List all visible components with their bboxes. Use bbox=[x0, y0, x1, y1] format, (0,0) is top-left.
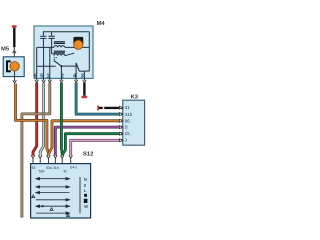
connector arrows above S12 bbox=[31, 155, 72, 158]
pin 4 riser bbox=[75, 63, 77, 79]
svg-text:53: 53 bbox=[32, 166, 36, 170]
connector arrow below M5 bbox=[13, 80, 17, 83]
svg-text:31b: 31b bbox=[125, 112, 133, 117]
connector arrows below M4 bbox=[35, 80, 86, 83]
pin 6 riser bbox=[36, 47, 38, 78]
svg-text:53a: 53a bbox=[46, 166, 52, 170]
switch junction node bbox=[60, 65, 62, 67]
wire green M4 pin2 to S12 bbox=[60, 83, 64, 156]
motor M4 brushes bbox=[73, 37, 83, 46]
svg-text:5: 5 bbox=[40, 73, 43, 79]
wire black stub to K3 31 bbox=[99, 107, 123, 109]
M4 internal wiring bbox=[37, 32, 90, 79]
wire teal M4 pin4 to K3 31b bbox=[76, 83, 123, 115]
svg-text:M4: M4 bbox=[97, 21, 106, 27]
M5 feed cable (thick black) bbox=[13, 28, 15, 48]
svg-text:15: 15 bbox=[125, 131, 131, 136]
wire lever to pin3 bbox=[79, 70, 84, 72]
terminal (red) at stub bbox=[97, 105, 99, 110]
svg-text:S: S bbox=[125, 125, 128, 130]
pin 3 riser bbox=[83, 71, 85, 78]
svg-text:53b: 53b bbox=[39, 170, 45, 174]
wire pink K3 J to S12 bbox=[71, 140, 123, 155]
S12 pin labels bbox=[32, 165, 78, 173]
wire green K3 15 to junction bbox=[62, 134, 122, 155]
svg-text:86: 86 bbox=[125, 118, 131, 123]
choke L1 bbox=[54, 46, 76, 48]
capacitor C2 bbox=[48, 32, 54, 54]
wire choke feed bbox=[37, 47, 54, 53]
svg-text:31: 31 bbox=[125, 105, 131, 110]
component box M5 (washer pump) bbox=[3, 57, 24, 77]
wire M5 top lead bbox=[13, 47, 15, 57]
pin 2 riser bbox=[60, 66, 62, 78]
M4 pin numbers bbox=[34, 73, 84, 79]
relay box K3 bbox=[123, 100, 145, 145]
switch rail bbox=[61, 65, 76, 67]
svg-text:J: J bbox=[125, 138, 127, 143]
capacitor C1 bbox=[40, 32, 46, 48]
pin 1 riser bbox=[49, 47, 51, 78]
choke L2 bbox=[54, 53, 74, 56]
S12 switch rows bbox=[36, 178, 70, 215]
connector arrows at K3 bbox=[119, 106, 122, 142]
svg-text:64-2: 64-2 bbox=[70, 165, 77, 169]
component box M4 (wiper motor) bbox=[34, 26, 93, 78]
wire black M4 pin3 to earth bbox=[83, 83, 85, 96]
washer pump M5 feed terminal (red) bbox=[12, 25, 17, 27]
wire purple K3 S to S12 31b bbox=[55, 127, 123, 156]
wire orange M5 to S12 pin 53a bbox=[16, 84, 49, 156]
M5 pump rotor bbox=[10, 62, 19, 71]
pin 5 riser bbox=[43, 47, 45, 78]
switch contact left bbox=[37, 65, 56, 67]
M5 pump bracket bbox=[7, 61, 11, 71]
motor M4 armature bbox=[74, 40, 83, 49]
svg-text:S12: S12 bbox=[83, 152, 93, 158]
wire red M4 pin6 to S12 53 bbox=[33, 83, 37, 156]
frame right edge bbox=[84, 32, 89, 71]
S12 position letters bbox=[84, 177, 89, 209]
svg-text:31b: 31b bbox=[53, 166, 59, 170]
S12 detent bar bbox=[79, 177, 81, 213]
svg-text:N: N bbox=[84, 177, 87, 182]
switch lever b bbox=[76, 63, 79, 71]
wire orange K3 86 to junction bbox=[49, 121, 123, 154]
svg-text:K3: K3 bbox=[131, 95, 139, 101]
choke core bars bbox=[54, 42, 65, 53]
S12 position marks bbox=[32, 195, 70, 216]
switch box S12 bbox=[31, 164, 91, 218]
switch lever a bbox=[54, 61, 62, 67]
wire stubs into S12 bbox=[33, 158, 71, 163]
linkage dashes bbox=[54, 58, 57, 60]
wire tan M4 pin1 to bottom bbox=[22, 83, 50, 218]
wire stubs below M4 bbox=[37, 78, 85, 80]
wire M5 bottom lead bbox=[14, 71, 16, 81]
connector arrow above M5 bbox=[13, 50, 17, 53]
svg-text:M5: M5 bbox=[1, 47, 10, 53]
K3 pin labels bbox=[125, 105, 133, 142]
wire top rail bbox=[43, 31, 89, 33]
svg-text:1: 1 bbox=[47, 73, 50, 79]
wire gray M4 pin5 to S12 53b bbox=[40, 83, 43, 156]
wire motor to frame bbox=[83, 46, 90, 48]
earth terminal (red) bbox=[82, 96, 88, 98]
svg-text:3: 3 bbox=[81, 73, 84, 79]
svg-text:6: 6 bbox=[34, 73, 37, 79]
svg-text:M: M bbox=[64, 170, 67, 174]
